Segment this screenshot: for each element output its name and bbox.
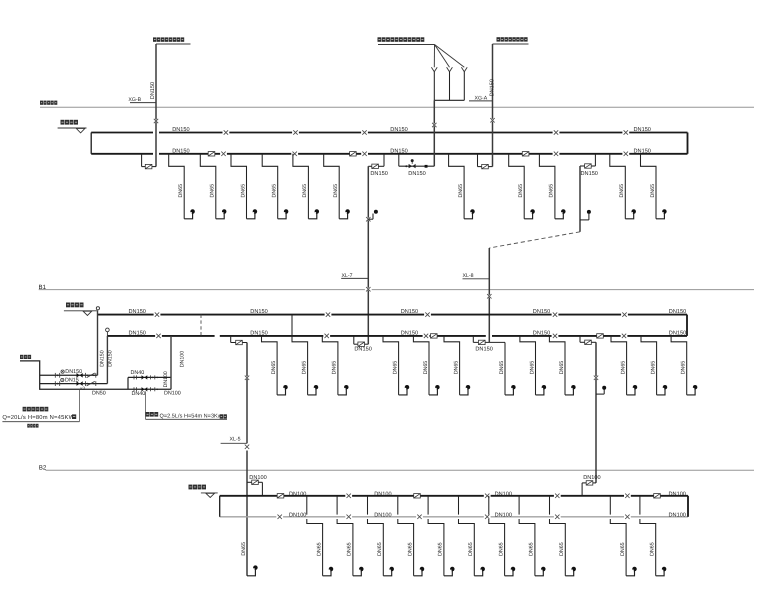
fire hydrant branch B1 #7 (DN65) (520, 336, 546, 395)
check assembly drop from T2 (398, 154, 400, 166)
bypass XL-6 top: drop from M2 (579, 336, 581, 342)
svg-text:DN150: DN150 (99, 350, 105, 367)
hydrant hook at XL-5 bottom (241, 542, 258, 576)
svg-text:DN65: DN65 (377, 542, 383, 556)
pump line 2 symbols (55, 381, 96, 386)
bypass XL-7 bottom: drop from M2 (353, 336, 355, 344)
svg-text:DN65: DN65 (241, 542, 247, 556)
test connection bottom manifold (434, 99, 464, 101)
bypass XL-5 B2: horizontal w/ valve (247, 480, 262, 484)
fire hydrant branch top #11 (DN65) (641, 154, 667, 219)
floor line B1 (39, 289, 754, 291)
riser XG-A top label (CJK blobs) (497, 37, 528, 41)
svg-text:DN150: DN150 (390, 148, 407, 154)
svg-text:DN150: DN150 (354, 347, 371, 353)
fire hydrant branch top #4 (DN65) (262, 154, 288, 219)
riser XL-5 vertical lower (246, 451, 248, 576)
wire XL-5 bypass drop to P1 (261, 482, 263, 496)
valve x on pipe M2 #1 (155, 334, 162, 338)
water tank symbol (B2) (189, 485, 218, 498)
butterfly valve on pipe T2 #3 (522, 152, 529, 156)
valve x on pipe T2 #3 (361, 152, 368, 156)
wire: left end connector T1-T2 (90, 133, 92, 154)
svg-text:DN65: DN65 (619, 184, 625, 198)
valve x on pipe M1 #3 (424, 312, 431, 316)
bypass XL-5 top: drop from M2 (230, 336, 232, 343)
svg-text:DN150: DN150 (172, 148, 189, 154)
svg-text:DN65: DN65 (272, 184, 278, 198)
valve x on pipe M2 #3 (423, 334, 430, 338)
svg-text:DN65: DN65 (423, 361, 429, 375)
svg-text:DN150: DN150 (634, 148, 651, 154)
pump suction line 2 (40, 383, 108, 385)
fire hydrant branch B2 #5 (DN65) (428, 496, 454, 576)
valve x on pipe T2 #4 (553, 152, 560, 156)
svg-text:DN150: DN150 (490, 79, 496, 96)
svg-text:DN65: DN65 (468, 542, 474, 556)
dashed connector M1-M2 (200, 315, 202, 336)
svg-text:DN65: DN65 (316, 542, 322, 556)
bypass XL-8 bottom: drop from M2 (472, 336, 474, 343)
fire hydrant branch B1 #6 (DN65) (444, 336, 470, 395)
svg-text:DN65: DN65 (529, 361, 535, 375)
valve x on pipe P2 #5 (554, 515, 561, 519)
valve on riser XL-5 upper (244, 376, 251, 380)
leader to hydrant pump text (78, 390, 80, 422)
svg-text:XG-B: XG-B (128, 97, 141, 103)
svg-text:DN65: DN65 (333, 184, 339, 198)
svg-text:DN150: DN150 (107, 350, 113, 367)
fire hydrant branch B1 #10 (DN65) (641, 336, 667, 395)
jockey pump spec tail (CJK blobs) (220, 414, 227, 418)
svg-text:DN50: DN50 (92, 391, 106, 397)
jockey loop top line (128, 376, 171, 378)
svg-text:DN65: DN65 (650, 542, 656, 556)
svg-text:DN150: DN150 (65, 369, 82, 375)
bypass riser-580: horizontal w/ valve (580, 164, 595, 168)
riser XL-5 vertical upper (246, 343, 248, 444)
fire hydrant branch B1 #11 (DN65) (671, 336, 697, 395)
jockey pump top (134, 375, 158, 379)
svg-text:DN150: DN150 (390, 127, 407, 133)
riser XL-6 vertical (595, 342, 597, 483)
valve on riser XG-B (153, 119, 160, 123)
suction inlet label (CJK blobs) (20, 355, 31, 359)
fire hydrant branch B2 #9 (DN65) (550, 496, 576, 576)
valve x on pipe M1 #1 (154, 312, 161, 316)
check assembly symbols (405, 159, 427, 168)
test connection top underline (378, 44, 435, 46)
svg-text:DN150: DN150 (250, 331, 267, 337)
label XL-5 (221, 436, 247, 443)
fire hydrant branch top #5 (DN65) (293, 154, 319, 219)
svg-text:DN65: DN65 (650, 184, 656, 198)
svg-text:DN100: DN100 (669, 512, 686, 518)
svg-text:DN65: DN65 (620, 361, 626, 375)
svg-text:DN150: DN150 (172, 127, 189, 133)
hydrant hook on riser-580 (580, 210, 591, 220)
svg-text:DN65: DN65 (499, 361, 505, 375)
pipe main M2 (B1 lower DN150 header) (107, 335, 687, 337)
svg-text:DN150: DN150 (250, 309, 267, 315)
bypass riser-580: drop from T2 (594, 154, 596, 166)
valve x on pipe M2 #2 (323, 334, 330, 338)
riser XG-B top label (CJK blobs) (153, 37, 184, 41)
svg-text:XL-5: XL-5 (230, 436, 241, 442)
svg-text:DN150: DN150 (533, 309, 550, 315)
pipe main T1 (upper DN150 header) (91, 132, 687, 134)
pressure gauge on riser 2 (106, 328, 110, 336)
svg-text:DN65: DN65 (453, 361, 459, 375)
fire hydrant branch B2 #8 (DN65) (519, 496, 545, 576)
fire hydrant branch B1 #2 (DN65) (292, 336, 318, 395)
svg-text:Q=2.5L/s H=54m N=3Kw: Q=2.5L/s H=54m N=3Kw (160, 414, 222, 420)
test connection top label (CJK blobs) (378, 37, 425, 42)
jockey loop left vertical (127, 377, 129, 389)
fire hydrant branch B2 #3 (DN65) (368, 496, 394, 576)
fire hydrant branch top #8 (DN65) (509, 154, 535, 219)
pump discharge riser 2 (106, 336, 108, 384)
svg-text:DN100: DN100 (289, 491, 306, 497)
valve x on pipe P1 #3 (554, 494, 561, 498)
pump suction line 1 (40, 374, 98, 376)
label DN150 pump line 1 (61, 369, 82, 375)
check valve assembly line (399, 165, 435, 167)
svg-text:DN100: DN100 (163, 371, 169, 387)
svg-text:DN65: DN65 (392, 361, 398, 375)
svg-text:DN65: DN65 (620, 542, 626, 556)
jockey pump spec underline (146, 418, 228, 420)
fire hydrant branch B2 #2 (DN65) (337, 496, 363, 576)
leader to jockey pump text (144, 391, 146, 419)
pipe main M1 (B1 upper DN150 header) (98, 314, 688, 316)
svg-text:DN65: DN65 (498, 542, 504, 556)
hydrant hook on riser XL-6 (596, 386, 606, 394)
pipe main T2 (lower DN150 header) (91, 153, 687, 155)
svg-text:DN100: DN100 (374, 491, 391, 497)
svg-text:DN100: DN100 (180, 351, 186, 368)
valve x on pipe T1 #5 (622, 130, 629, 134)
svg-text:DN150: DN150 (401, 309, 418, 315)
valve x on pipe P2 #3 (416, 515, 423, 519)
fire hydrant branch top #10 (DN65) (610, 154, 636, 219)
svg-text:DN65: DN65 (210, 184, 216, 198)
riser XG-B top underline (156, 43, 191, 45)
wire XL-6 bottom drop to P1 (581, 483, 583, 496)
label XL-8 (463, 273, 490, 279)
svg-text:DN40: DN40 (131, 370, 145, 376)
svg-text:DN150: DN150 (129, 309, 146, 315)
valve x on pipe P2 #1 (276, 515, 283, 519)
wire connector M1-M2 at branch 292 (291, 315, 293, 336)
svg-text:B2: B2 (39, 464, 47, 471)
bypass XG-A: drop from T2 (477, 154, 479, 167)
wire: right end elbow M1-M2 (686, 315, 688, 336)
valve on test riser (431, 123, 438, 127)
svg-text:DN100: DN100 (289, 512, 306, 518)
bypass XG-A: horizontal w/ valve (478, 164, 493, 168)
wire: left end connector P1-P2 (219, 496, 221, 517)
riser-580 vertical (579, 166, 581, 232)
fire hydrant branch B1 #3 (DN65) (322, 336, 348, 395)
svg-text:DN65: DN65 (529, 542, 535, 556)
valve x on pipe T2 #5 (622, 152, 629, 156)
air vent on riser 1 (96, 307, 99, 310)
fire hydrant branch top #1 (DN65) (169, 154, 195, 219)
fire hydrant branch top #2 (DN65) (200, 154, 226, 219)
valve on riser XL-8 below B1 floor (486, 294, 493, 298)
svg-text:DN150: DN150 (533, 331, 550, 337)
valve x on pipe P1 #1 (345, 494, 352, 498)
svg-text:DN150: DN150 (408, 171, 425, 177)
svg-text:DN100: DN100 (164, 391, 181, 397)
pipe main P1 (B2 upper DN100 header) (220, 495, 688, 497)
svg-text:DN65: DN65 (650, 361, 656, 375)
butterfly valve on pipe P1 #2 (414, 494, 421, 498)
water tank symbol (B1) (64, 303, 97, 316)
bypass XL-6 bottom: horizontal w/ valve (582, 481, 596, 485)
svg-text:DN65: DN65 (518, 184, 524, 198)
fire hydrant branch B1 from XL-8 bypass (DN65) (499, 342, 516, 395)
svg-text:DN65: DN65 (438, 542, 444, 556)
valve x on pipe P1 #4 (624, 494, 631, 498)
svg-text:DN150: DN150 (581, 171, 598, 177)
svg-text:DN100: DN100 (495, 491, 512, 497)
fire hydrant branch B1 #5 (DN65) (413, 336, 439, 395)
hydrant pump spec underline (2, 421, 79, 423)
svg-text:DN65: DN65 (178, 184, 184, 198)
svg-text:DN150: DN150 (150, 82, 156, 99)
fire hydrant branch top #6 (DN65) (324, 154, 350, 219)
bypass XL-5 top: horizontal w/ valve (231, 340, 247, 344)
label XG-B (128, 97, 155, 103)
svg-text:DN100: DN100 (495, 512, 512, 518)
svg-text:DN65: DN65 (681, 361, 687, 375)
hydrant pump spec text title (CJK blobs) (23, 407, 49, 412)
butterfly valve on pipe T2 #2 (350, 152, 357, 156)
svg-text:DN40: DN40 (132, 391, 146, 397)
svg-text:DN100: DN100 (669, 491, 686, 497)
riser XG-A top underline (493, 43, 529, 45)
butterfly valve on pipe P1 #1 (277, 494, 284, 498)
pump line 1 symbols (55, 373, 96, 378)
svg-text:DN65: DN65 (407, 542, 413, 556)
svg-text:DN65: DN65 (458, 184, 464, 198)
fire hydrant branch B2 #1 (DN65) (307, 496, 333, 576)
valve x on pipe M1 #4 (552, 312, 559, 316)
test connection arrows trio (431, 45, 467, 101)
fire hydrant branch B1 #1 (DN65) (262, 336, 288, 395)
svg-text:DN150: DN150 (401, 331, 418, 337)
riser XG-A vertical (492, 44, 494, 167)
svg-text:DN150: DN150 (370, 171, 387, 177)
bypass XL-6 top: horizontal w/ valve (580, 340, 596, 344)
label DN150 pump line 2 (61, 377, 79, 383)
riser XG-B vertical (155, 44, 157, 167)
jockey pump spec CJK head (146, 412, 159, 417)
svg-text:XL-8: XL-8 (463, 273, 474, 279)
svg-text:x2: x2 (80, 386, 85, 392)
valve x on pipe T2 #2 (291, 152, 298, 156)
butterfly valve on pipe M2 #2 (597, 334, 604, 338)
riser XL-8 vertical (488, 248, 490, 342)
wire: pipe crossing gaps at risers (top) (153, 131, 159, 134)
valve x on pipe T1 #1 (223, 130, 230, 134)
valve on riser XL-6 (593, 376, 600, 380)
valve x on pipe T2 #1 (220, 152, 227, 156)
svg-text:DN65: DN65 (302, 184, 308, 198)
fire hydrant branch B1 #4 (DN65) (383, 336, 409, 395)
svg-text:DN100: DN100 (374, 512, 391, 518)
fire hydrant branch top #9 (DN65) (539, 154, 565, 219)
water tank symbol (top section) (58, 120, 87, 133)
svg-text:DN150: DN150 (669, 331, 686, 337)
bypass XG-B: drop from T2 (141, 154, 143, 167)
bypass XL-8 bottom: horizontal w/ valve (473, 340, 505, 344)
valve x on pipe M2 #5 (621, 334, 628, 338)
bypass XL-7 bottom: horizontal w/ valve (354, 342, 369, 346)
valve x on pipe T1 #4 (553, 130, 560, 134)
svg-text:DN65: DN65 (559, 361, 565, 375)
svg-text:DN15: DN15 (65, 377, 79, 383)
valve x on pipe P1 #2 (484, 494, 491, 498)
fire hydrant branch top #7 (DN65) (449, 154, 475, 219)
valve x on pipe P2 #2 (345, 515, 352, 519)
svg-text:DN65: DN65 (549, 184, 555, 198)
wire: right end elbow P1-P2 (687, 496, 689, 517)
label XG-A (469, 96, 493, 102)
svg-text:DN150: DN150 (634, 127, 651, 133)
svg-text:DN65: DN65 (271, 361, 277, 375)
butterfly valve on pipe P1 #3 (654, 494, 661, 498)
svg-text:DN65: DN65 (332, 361, 338, 375)
fire hydrant branch B1 #8 (DN65) (549, 336, 575, 395)
label XL-7 (341, 273, 368, 279)
fire hydrant branch B2 #7 (DN65) (489, 496, 515, 576)
fire hydrant branch top #3 (DN65) (231, 154, 257, 219)
suction inlet pipe L (20, 361, 171, 389)
dashed offset riser-580 to XL-8 (489, 232, 580, 248)
riser from test connection (433, 100, 435, 166)
svg-text:B1: B1 (39, 284, 47, 291)
valve x on pipe P2 #6 (624, 515, 631, 519)
valve x on pipe P2 #4 (484, 515, 491, 519)
butterfly valve on pipe M2 #1 (431, 334, 438, 338)
pipe main P2 (B2 lower DN100 header, gray) (220, 516, 688, 518)
valve on riser XG-A (489, 118, 496, 122)
bypass XG-B: horizontal w/ valve (142, 164, 156, 168)
floor slab label (tiny CJK blobs) (40, 101, 57, 105)
bypass XL-7 top: drop from T2 (383, 154, 385, 167)
svg-text:DN65: DN65 (301, 361, 307, 375)
fire hydrant branch B2 #10 (DN65) (610, 496, 636, 576)
svg-text:DN100: DN100 (583, 475, 600, 481)
svg-text:Q=20L/s H=80m N=45KW/: Q=20L/s H=80m N=45KW/ (2, 414, 76, 421)
svg-text:DN65: DN65 (347, 542, 353, 556)
svg-text:DN150: DN150 (129, 331, 146, 337)
jockey riser to M2 (170, 336, 172, 389)
wire: right end elbow T1-T2 (687, 133, 689, 154)
fire hydrant branch B2 #11 (DN65) (640, 496, 666, 576)
hydrant pump spec CJK tail (72, 414, 76, 419)
fire hydrant branch B1 #9 (DN65) (611, 336, 637, 395)
fire hydrant branch B2 #6 (DN65) (459, 496, 485, 576)
svg-text:DN100: DN100 (249, 475, 266, 481)
svg-text:DN150: DN150 (475, 346, 492, 352)
hydrant pump spec line 2 (CJK blobs) (27, 424, 38, 428)
floor line: basement ceiling (slab 0) (40, 106, 754, 108)
floor line B2 (46, 469, 755, 471)
valve x on pipe T1 #3 (361, 130, 368, 134)
valve x on pipe T1 #2 (292, 130, 299, 134)
valve x on pipe M2 #4 (552, 334, 559, 338)
valve on riser XL-7 at B1 floor (365, 287, 372, 291)
fire hydrant branch B2 #4 (DN65) (398, 496, 424, 576)
bypass XL-7 top: horizontal w/ valve (368, 164, 384, 168)
valve x on pipe M1 #2 (325, 312, 332, 316)
valve x on pipe M1 #5 (621, 312, 628, 316)
pump discharge riser 1 (97, 310, 99, 375)
svg-text:DN65: DN65 (559, 542, 565, 556)
jockey pump bottom (134, 387, 158, 391)
valve on riser XL-5 lower (244, 445, 251, 449)
hydrant hook on riser XL-7 (365, 210, 378, 222)
butterfly valve on pipe T2 #1 (208, 152, 215, 156)
svg-text:DN150: DN150 (669, 309, 686, 315)
svg-text:DN65: DN65 (240, 184, 246, 198)
riser XL-7 vertical (367, 166, 369, 344)
